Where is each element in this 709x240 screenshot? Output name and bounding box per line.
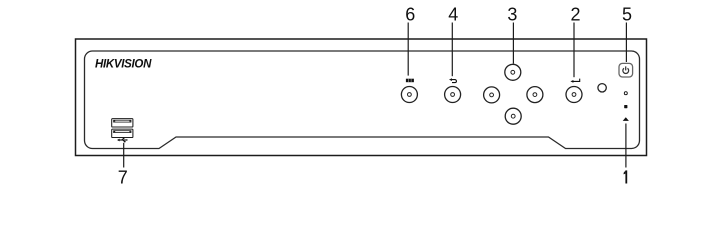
led indicator circle bbox=[624, 92, 627, 95]
led indicator triangle bbox=[623, 117, 629, 121]
svg-text:6: 6 bbox=[405, 5, 415, 25]
d-pad down button bbox=[505, 108, 521, 124]
svg-text:4: 4 bbox=[448, 5, 458, 25]
led indicator square bbox=[624, 105, 627, 108]
leader line 2 bbox=[573, 23, 575, 78]
menu icon bbox=[406, 79, 414, 83]
svg-text:7: 7 bbox=[118, 167, 128, 186]
enter icon bbox=[570, 79, 579, 83]
ir receiver circle bbox=[598, 84, 606, 92]
leader line 5 bbox=[625, 23, 627, 63]
panel inner bezel outline bbox=[85, 51, 640, 149]
power symbol bbox=[623, 66, 629, 73]
panel outer rectangle bbox=[76, 39, 647, 156]
leader line 4 bbox=[451, 23, 453, 77]
svg-text:HIKVISION: HIKVISION bbox=[95, 59, 152, 71]
d-pad up button bbox=[505, 64, 521, 80]
svg-text:3: 3 bbox=[507, 5, 517, 25]
back-arrow icon bbox=[449, 78, 456, 82]
button 2 enter bbox=[566, 87, 582, 103]
svg-text:5: 5 bbox=[622, 5, 632, 25]
usb port upper bbox=[112, 119, 133, 127]
d-pad right button bbox=[527, 87, 543, 103]
usb port lower bbox=[112, 129, 133, 137]
leader line 1 bbox=[625, 124, 627, 168]
button 6 menu bbox=[401, 87, 417, 103]
usb trident symbol bbox=[117, 138, 128, 143]
label 1 bbox=[624, 170, 628, 183]
leader line 3 bbox=[512, 23, 514, 64]
power button 5 bbox=[619, 63, 633, 77]
svg-text:2: 2 bbox=[570, 5, 580, 25]
leader line 7 bbox=[123, 143, 125, 168]
button 4 back bbox=[445, 87, 461, 103]
d-pad left button bbox=[484, 87, 500, 103]
leader line 6 bbox=[407, 23, 409, 76]
